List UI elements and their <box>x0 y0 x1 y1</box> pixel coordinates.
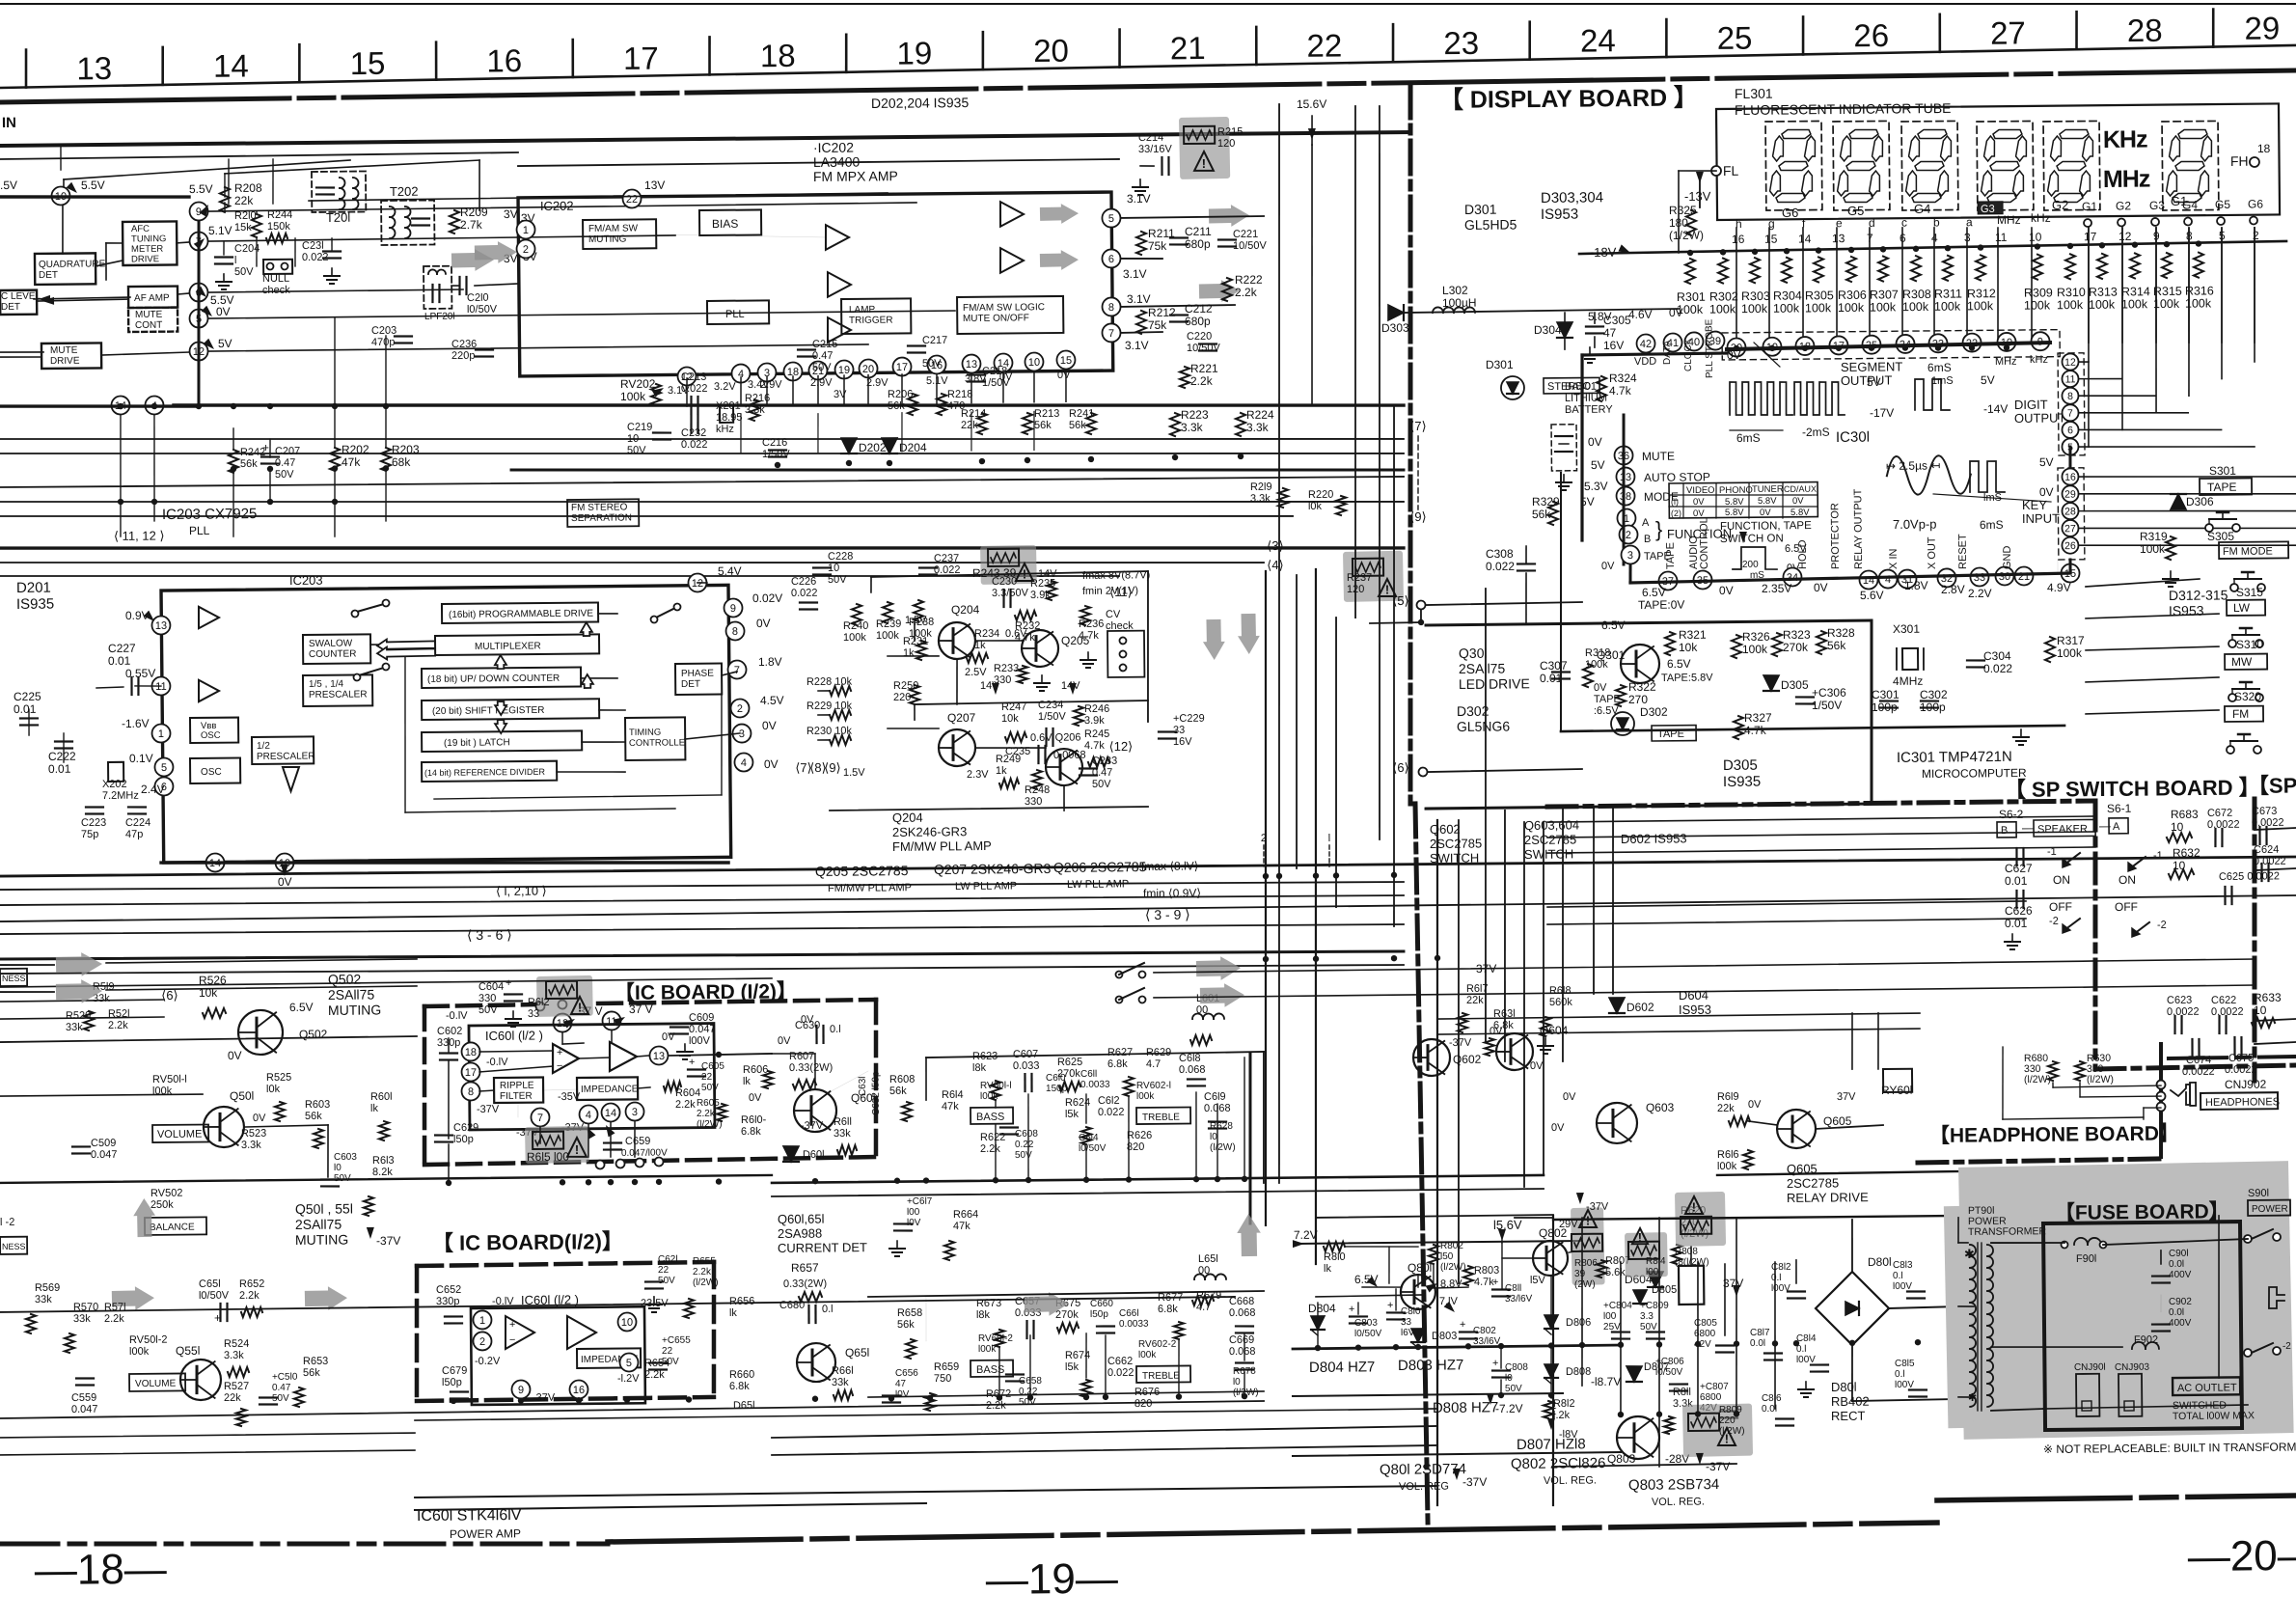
wire t201 net <box>224 203 226 211</box>
svg-text:2.2k: 2.2k <box>104 1313 124 1325</box>
svg-text:2.2k: 2.2k <box>693 1267 712 1278</box>
IC202 pin 20 bottom <box>859 359 877 377</box>
capacitor C509 0.047 <box>72 1145 90 1147</box>
wire grid join 1 <box>2120 228 2124 429</box>
wire r242 vert <box>232 428 234 450</box>
svg-text:R215: R215 <box>1217 126 1243 138</box>
block PROGRAMMABLE DRIVE <box>442 602 598 623</box>
svg-text:+: + <box>1492 1277 1499 1288</box>
svg-text:IS953: IS953 <box>2169 603 2204 618</box>
wire quad down <box>61 206 64 254</box>
svg-text:R325: R325 <box>1669 204 1697 217</box>
resistor R236 4.7k <box>1080 606 1090 625</box>
svg-text:7: 7 <box>1108 328 1114 340</box>
junction dot 70 <box>1579 1342 1585 1348</box>
resistor R321 10k <box>1665 632 1675 655</box>
svg-text:4.7k: 4.7k <box>1084 740 1105 752</box>
junction dot 8 <box>267 466 273 472</box>
svg-text:R324: R324 <box>1609 371 1637 385</box>
wire spk line3 <box>2095 959 2255 961</box>
FL301 digit cell 4 <box>1977 121 2034 210</box>
svg-text:C808: C808 <box>1505 1362 1528 1373</box>
svg-text:IS935: IS935 <box>1723 774 1761 790</box>
svg-text:MUTING: MUTING <box>295 1231 348 1248</box>
pin 14 tuner <box>111 396 129 414</box>
svg-text:50V: 50V <box>1092 779 1111 790</box>
svg-text:C8ll: C8ll <box>1505 1283 1521 1294</box>
svg-text:26: 26 <box>1853 17 1889 53</box>
resistor R203 68k <box>381 448 391 471</box>
svg-text:8: 8 <box>2067 391 2073 402</box>
pin 7 ic203 <box>727 660 746 678</box>
svg-text:!: ! <box>1202 156 1206 171</box>
wire segment line 6 <box>1933 228 1935 343</box>
svg-text:R218: R218 <box>947 389 972 400</box>
svg-text:R520: R520 <box>66 1010 91 1022</box>
svg-text:17: 17 <box>465 1067 477 1079</box>
svg-text:13: 13 <box>966 359 977 371</box>
svg-text:✱: ✱ <box>1968 1392 1977 1404</box>
svg-text:D604: D604 <box>1679 988 1708 1003</box>
svg-text:33: 33 <box>528 1008 539 1020</box>
svg-text:22: 22 <box>658 1265 670 1276</box>
svg-text:✱: ✱ <box>1964 1247 1975 1261</box>
svg-text:0.022: 0.022 <box>681 383 708 395</box>
wire psu to fuse1 <box>1957 1218 1960 1243</box>
wire tone low stub f <box>1244 1333 1245 1360</box>
svg-text:0.01: 0.01 <box>1540 672 1563 685</box>
junction dot 65 <box>1393 1344 1399 1350</box>
svg-text:R652: R652 <box>239 1278 264 1290</box>
svg-text:0V: 0V <box>1588 435 1602 449</box>
svg-text:FM MPX AMP: FM MPX AMP <box>813 168 898 184</box>
wire low bus2 <box>772 1426 1437 1438</box>
zener D804 <box>1311 1316 1325 1330</box>
svg-text:check: check <box>1106 620 1134 632</box>
Q301 box bottom edge <box>1426 804 1872 809</box>
svg-text:0.033: 0.033 <box>1013 1060 1040 1072</box>
svg-text:250k: 250k <box>150 1199 174 1211</box>
wire quad afc <box>96 261 123 266</box>
svg-text:0.22: 0.22 <box>1015 1140 1034 1150</box>
svg-text:SWALOW: SWALOW <box>309 639 353 649</box>
svg-text:IC202: IC202 <box>540 199 574 213</box>
svg-text:X201: X201 <box>716 400 741 412</box>
wire vertical x1364 <box>1309 569 1323 1264</box>
arrow 3v in <box>451 249 494 272</box>
pin 5 ic203 <box>154 757 173 776</box>
svg-text:R527: R527 <box>224 1381 249 1392</box>
wire -18V bus <box>1579 241 2286 254</box>
svg-text:RV602-l: RV602-l <box>1136 1081 1171 1091</box>
svg-text:100k: 100k <box>2153 297 2180 311</box>
svg-text:0.6V: 0.6V <box>1005 628 1027 640</box>
capacitor C204 50V <box>215 256 232 259</box>
svg-text:C8l2: C8l2 <box>1771 1262 1791 1273</box>
grid pin G3 <box>2151 218 2159 226</box>
svg-text:0.068: 0.068 <box>1229 1307 1256 1319</box>
resistor R210 15k <box>252 214 261 237</box>
ruler tick 4 <box>571 40 574 77</box>
junction dot 95 <box>2035 243 2040 249</box>
svg-text:l50p: l50p <box>442 1377 462 1388</box>
svg-text:D804 HZ7: D804 HZ7 <box>1309 1359 1376 1376</box>
junction dot 3 <box>231 403 236 409</box>
wire bus under ruler 2 <box>0 152 518 159</box>
amp tri ic203 inv <box>283 767 299 791</box>
junction dot 69 <box>1548 1342 1554 1348</box>
svg-text:4.7k: 4.7k <box>1609 384 1632 398</box>
capacitor C216 1/50V <box>769 449 786 452</box>
svg-text:3.1V: 3.1V <box>1127 292 1151 306</box>
svg-text:8: 8 <box>1108 302 1114 314</box>
svg-text:0.1V: 0.1V <box>129 752 153 765</box>
svg-text:SPEAKER: SPEAKER <box>2037 823 2088 835</box>
svg-text:G6: G6 <box>1782 206 1798 220</box>
waveform key pulses <box>1970 461 2005 493</box>
svg-text:0.47: 0.47 <box>275 457 296 469</box>
svg-text:C6l2: C6l2 <box>1098 1095 1120 1107</box>
svg-text:S315: S315 <box>2236 586 2263 599</box>
wire segment line 2 <box>1802 228 1804 343</box>
svg-text:l0/50V: l0/50V <box>1079 1143 1107 1154</box>
junction dot 56 <box>927 1395 933 1401</box>
IC301 pin 17 segment output <box>1829 336 1847 354</box>
junction dot 106 <box>1902 344 1908 350</box>
pin 4 ic601u <box>579 1105 597 1123</box>
pin 2 ic202 <box>516 239 534 258</box>
svg-text:-37V: -37V <box>533 1392 556 1404</box>
svg-text:R660: R660 <box>729 1369 754 1381</box>
wire sp area h3 <box>1547 847 2095 853</box>
diode D306 <box>2171 494 2186 509</box>
gray blob R806 <box>1571 1207 1605 1285</box>
svg-text:IN: IN <box>2 115 16 131</box>
svg-text:Q50l: Q50l <box>230 1089 254 1103</box>
svg-text:26: 26 <box>2064 540 2076 552</box>
svg-text:R235: R235 <box>1030 578 1055 590</box>
block OSC <box>190 758 240 783</box>
svg-text:0V: 0V <box>2039 485 2054 499</box>
svg-text:TRIGGER: TRIGGER <box>849 316 893 326</box>
junction dot 105 <box>1869 344 1874 350</box>
svg-text:R8l2: R8l2 <box>1553 1398 1575 1410</box>
svg-text:VIDEO: VIDEO <box>1686 485 1715 496</box>
svg-text:0.47: 0.47 <box>812 350 834 362</box>
svg-text:-1.6V: -1.6V <box>122 717 150 730</box>
svg-text:C225: C225 <box>14 690 41 703</box>
svg-text:19: 19 <box>896 35 932 70</box>
wire key input net 3 <box>2086 646 2219 650</box>
pin 1 ic601l <box>473 1310 491 1329</box>
block C LEVEL DET <box>0 290 37 315</box>
svg-text:30: 30 <box>1999 571 2010 583</box>
svg-text:47: 47 <box>895 1379 907 1389</box>
junction dot 0 <box>118 403 123 409</box>
svg-text:⟨9⟩: ⟨9⟩ <box>1409 509 1427 524</box>
svg-text:C632 l50p: C632 l50p <box>871 1071 882 1115</box>
svg-text:C2l0: C2l0 <box>467 292 489 304</box>
svg-text:37 V: 37 V <box>629 1003 653 1016</box>
svg-text:-0.2V: -0.2V <box>475 1356 501 1367</box>
svg-text:18: 18 <box>465 1047 477 1058</box>
grid pin G1 <box>2084 219 2091 227</box>
transistor Q502 <box>238 1010 283 1055</box>
junction dot 27 <box>1391 872 1397 878</box>
wire mode col <box>1623 415 1626 564</box>
wire bridge top <box>1851 1220 1852 1272</box>
svg-text:100k: 100k <box>1967 299 1994 313</box>
fet Q204 <box>939 622 975 659</box>
zener D805 <box>1633 1290 1647 1304</box>
ruler tick 12 <box>1665 19 1668 57</box>
wire bottom rail 1 <box>415 1486 1437 1497</box>
svg-text:l.2k: l.2k <box>1553 1410 1571 1421</box>
IC301 pin 33 bottom <box>1970 567 1988 586</box>
op amp triangle lower b <box>567 1316 597 1349</box>
svg-text:0.047: 0.047 <box>91 1149 118 1161</box>
svg-text:Q60l,65l: Q60l,65l <box>778 1212 825 1226</box>
wire relay area h2 <box>1437 1029 1920 1034</box>
wire vertical x1620b <box>1560 807 1565 1061</box>
wire psu vert f <box>1774 1262 1777 1409</box>
diode D305 <box>1763 675 1779 691</box>
svg-text:C659: C659 <box>625 1136 650 1147</box>
svg-text:R605: R605 <box>697 1098 720 1109</box>
svg-text:R6l9: R6l9 <box>1717 1091 1739 1103</box>
svg-text:0.47: 0.47 <box>272 1383 291 1393</box>
svg-text:FH: FH <box>2230 153 2249 169</box>
svg-text:Q603: Q603 <box>1646 1101 1675 1114</box>
diode D601 <box>783 1146 799 1162</box>
junction dot 108 <box>1969 344 1975 350</box>
wire digit output 2 <box>2079 395 2155 396</box>
svg-text:G2: G2 <box>2052 198 2068 212</box>
capacitor C605 22 50V <box>688 1068 705 1071</box>
svg-text:⟨ 11, 12 ⟩: ⟨ 11, 12 ⟩ <box>114 528 165 543</box>
svg-text:0V: 0V <box>762 719 777 732</box>
arrow ic202 out3 <box>1209 205 1249 228</box>
svg-text:R329: R329 <box>1532 495 1560 508</box>
svg-text:Q602: Q602 <box>1430 822 1461 837</box>
svg-text:D305: D305 <box>1781 678 1809 692</box>
junction dot 97 <box>2099 242 2105 248</box>
svg-text:FUNCTION, TAPE: FUNCTION, TAPE <box>1720 520 1812 533</box>
svg-text:50V: 50V <box>275 469 294 481</box>
pin 10 tuner <box>51 186 69 205</box>
svg-text:1: 1 <box>479 1315 485 1327</box>
ruler tick 15 <box>2075 12 2078 49</box>
svg-text:0V: 0V <box>253 1113 266 1124</box>
svg-text:D306: D306 <box>2186 495 2214 508</box>
gray blob R215 <box>1179 117 1230 179</box>
svg-text:22k: 22k <box>961 420 978 431</box>
wire low bus under <box>0 1401 1264 1418</box>
svg-text:R8l4: R8l4 <box>1646 1256 1666 1267</box>
svg-text:0.022: 0.022 <box>1983 662 2012 675</box>
svg-text:17: 17 <box>2084 230 2097 243</box>
wire segment line 12 <box>2155 228 2157 343</box>
wire ic202 out8 <box>1121 305 1235 307</box>
svg-text:TAPE:5.8V: TAPE:5.8V <box>1661 672 1713 684</box>
svg-text:PHASE: PHASE <box>681 669 714 679</box>
svg-text:16: 16 <box>573 1385 585 1396</box>
wire tuner main in <box>0 195 189 199</box>
svg-text:4.7: 4.7 <box>1146 1058 1161 1070</box>
svg-text:IC60l (l/2 ): IC60l (l/2 ) <box>521 1292 579 1307</box>
svg-text:R236: R236 <box>1079 618 1104 630</box>
svg-text:28: 28 <box>2064 506 2076 517</box>
wire key input 4 <box>2079 543 2296 547</box>
svg-text:5V: 5V <box>1591 458 1605 472</box>
gnd psu <box>1805 1382 1807 1389</box>
junction dot 53 <box>686 1396 692 1402</box>
wire segment line 1 <box>1768 228 1770 343</box>
svg-text:l8k: l8k <box>976 1309 991 1321</box>
svg-text:R806: R806 <box>1574 1258 1598 1269</box>
svg-text:2.7k: 2.7k <box>460 218 483 232</box>
svg-text:LA3400: LA3400 <box>813 154 861 170</box>
amp tri ic203 a <box>199 607 219 629</box>
svg-text:100k: 100k <box>1838 301 1865 315</box>
svg-text:680p: 680p <box>1185 315 1211 328</box>
svg-text:TAPE:0V: TAPE:0V <box>1638 598 1685 612</box>
pin 10 ic203 <box>275 853 293 871</box>
svg-text:R321: R321 <box>1679 628 1707 642</box>
svg-text:11: 11 <box>1995 231 2008 244</box>
junction dot 60 <box>1103 1394 1108 1400</box>
svg-text:0V: 0V <box>1594 682 1607 694</box>
svg-text:1k: 1k <box>996 765 1007 777</box>
svg-text:D808 HZ7: D808 HZ7 <box>1433 1399 1499 1416</box>
node ch5 junction <box>1418 619 1424 625</box>
gray blob R814 <box>1625 1232 1668 1278</box>
svg-text:G3: G3 <box>2149 199 2165 212</box>
svg-text:A: A <box>2113 821 2120 833</box>
svg-text:FL301: FL301 <box>1735 86 1773 101</box>
svg-text:C224: C224 <box>125 817 150 829</box>
junction dot 63 <box>1315 1345 1321 1351</box>
svg-text:LW: LW <box>2233 601 2251 615</box>
fuse board gray area <box>1943 1161 2294 1440</box>
svg-text:D312-315: D312-315 <box>2169 587 2228 603</box>
svg-text:Q207: Q207 <box>947 711 976 725</box>
svg-text:Q204: Q204 <box>951 603 980 617</box>
IC301 pin 7 digit output <box>2062 404 2078 421</box>
svg-text:A: A <box>1642 517 1650 529</box>
svg-text:PRESCALER: PRESCALER <box>257 751 315 762</box>
transformer T202 <box>381 200 434 245</box>
wire psu mid bus <box>1293 1345 1621 1349</box>
svg-text:C216: C216 <box>762 437 787 449</box>
svg-text:13: 13 <box>76 50 112 86</box>
wire bottom rail 2 <box>415 1503 926 1510</box>
svg-text:C680: C680 <box>779 1300 805 1311</box>
wire grid join 4 <box>2221 228 2224 379</box>
svg-text:2SAll75: 2SAll75 <box>328 987 375 1003</box>
svg-text:C602: C602 <box>437 1026 462 1037</box>
svg-text:5.8V: 5.8V <box>1725 508 1744 518</box>
resistor R311 100k <box>1943 256 1953 281</box>
junction dot 17 <box>887 460 892 466</box>
resistor R318 100k <box>1583 664 1593 687</box>
wire fuse v right <box>2217 1216 2220 1378</box>
svg-text:R327: R327 <box>1744 711 1772 725</box>
svg-text:+: + <box>509 1319 516 1331</box>
svg-text:C90l: C90l <box>2169 1249 2189 1259</box>
svg-text:C624: C624 <box>2254 844 2279 856</box>
junction dot 51 <box>576 1397 582 1403</box>
resistor R810 1k <box>1324 1242 1345 1251</box>
svg-text:l0V: l0V <box>895 1389 910 1400</box>
svg-text:2.9V: 2.9V <box>866 377 888 389</box>
pin 10 ic601l <box>617 1312 636 1331</box>
wire tone upper bus2 <box>772 1175 1544 1183</box>
junction dot 89 <box>1816 247 1821 253</box>
svg-text:2.2k: 2.2k <box>239 1290 260 1302</box>
svg-text:5V: 5V <box>1981 373 1995 387</box>
svg-text:22k: 22k <box>1466 995 1484 1006</box>
svg-text:C213: C213 <box>681 371 706 383</box>
svg-text:2: 2 <box>479 1336 485 1348</box>
svg-text:kHz: kHz <box>2030 354 2048 366</box>
svg-text:6.5V: 6.5V <box>1667 657 1691 671</box>
svg-text:C607: C607 <box>1013 1049 1038 1060</box>
junction dot 77 <box>1849 1340 1855 1346</box>
junction dot 33 <box>560 1179 565 1185</box>
svg-text:R234: R234 <box>974 628 999 640</box>
junction dot 99 <box>2164 241 2170 247</box>
main board boundary dash-dot top <box>0 70 2296 102</box>
svg-text:2.2k: 2.2k <box>980 1143 1000 1155</box>
resistor R250 220 <box>910 685 919 704</box>
svg-text:TOTAL l00W MAX: TOTAL l00W MAX <box>2173 1410 2255 1422</box>
svg-text:l0: l0 <box>1505 1373 1513 1384</box>
pin 11 ic203 <box>151 676 170 695</box>
wire spk line2 <box>1154 987 2095 998</box>
wire bus y597 <box>0 565 1119 587</box>
svg-text:17: 17 <box>623 41 659 76</box>
svg-text:D303,304: D303,304 <box>1541 189 1603 206</box>
svg-text:ON: ON <box>2053 873 2070 887</box>
headphone jack <box>2171 1085 2190 1105</box>
svg-text:18.95: 18.95 <box>716 412 743 424</box>
wire left in1 <box>0 965 54 966</box>
svg-text:C6l0: C6l0 <box>1046 1073 1066 1084</box>
wire ic202 out7 <box>1121 331 1162 334</box>
svg-text:R245: R245 <box>1084 728 1109 740</box>
digit output dashed brace <box>2058 353 2085 455</box>
svg-text:kHz: kHz <box>2031 211 2051 225</box>
pin 4 tuner <box>145 396 163 414</box>
FL301 tube outline <box>1716 103 2280 220</box>
svg-text:IC203 CX7925: IC203 CX7925 <box>162 506 258 523</box>
svg-text:—20—: —20— <box>2188 1532 2296 1580</box>
svg-text:3.3k: 3.3k <box>745 404 765 416</box>
resistor R224 3.3k <box>1236 413 1245 436</box>
arrow ic202 out1 <box>1040 204 1079 225</box>
wire tone low stub a <box>998 1347 1000 1397</box>
junction dot 42 <box>993 1177 998 1183</box>
svg-text:MHz: MHz <box>2103 166 2150 193</box>
svg-text:⟨7⟩: ⟨7⟩ <box>1409 419 1427 433</box>
svg-text:INPUT: INPUT <box>2022 511 2060 526</box>
svg-text:MHz: MHz <box>1997 213 2021 227</box>
block LAMP TRIGGER <box>841 298 911 334</box>
svg-text:27: 27 <box>2064 523 2076 535</box>
capacitor C808 10 50V <box>1492 1369 1510 1372</box>
wire bus y470 <box>0 440 1404 467</box>
